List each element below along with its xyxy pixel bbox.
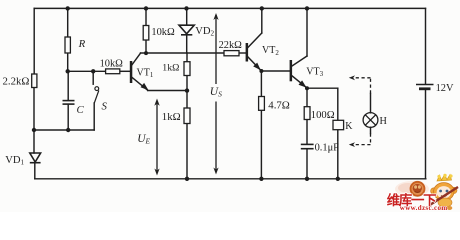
svg-text:10kΩ: 10kΩ [100, 59, 124, 70]
svg-text:100Ω: 100Ω [311, 110, 335, 121]
svg-text:1kΩ: 1kΩ [162, 111, 181, 123]
svg-text:12V: 12V [436, 83, 454, 94]
svg-text:R: R [78, 38, 86, 50]
svg-text:H: H [380, 116, 388, 127]
svg-text:2.2kΩ: 2.2kΩ [3, 75, 30, 87]
svg-text:10kΩ: 10kΩ [151, 27, 175, 38]
svg-text:C: C [77, 104, 85, 116]
svg-text:www.dzsc.com: www.dzsc.com [400, 204, 448, 212]
svg-text:S: S [102, 101, 108, 113]
svg-text:1kΩ: 1kΩ [162, 62, 179, 73]
svg-text:4.7Ω: 4.7Ω [268, 100, 290, 112]
svg-text:K: K [345, 121, 353, 132]
svg-text:0.1μF: 0.1μF [315, 142, 340, 153]
svg-text:22kΩ: 22kΩ [219, 40, 243, 51]
